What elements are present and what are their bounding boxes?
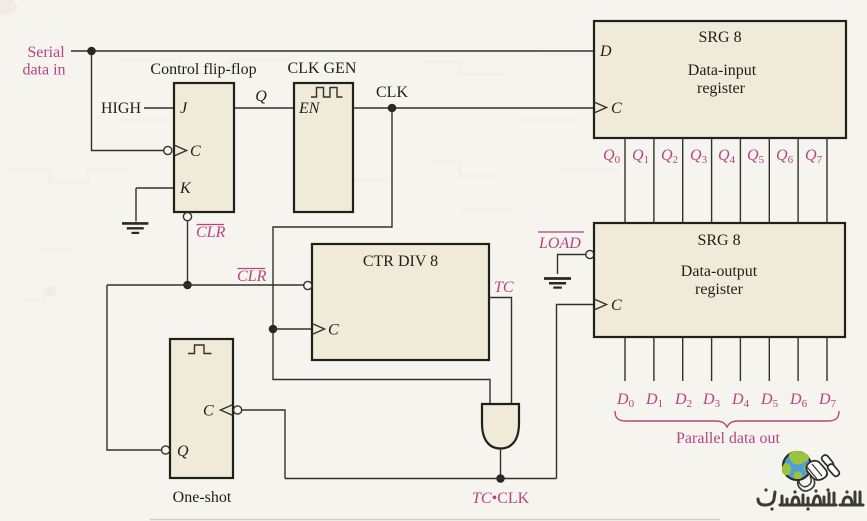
wire CLR to CTR — [107, 284, 304, 286]
svg-text:One-shot: One-shot — [173, 489, 232, 506]
wire CLK down to CTR and AND — [273, 108, 490, 405]
pin clock triangle FF — [174, 145, 187, 156]
svg-text:SRG 8: SRG 8 — [698, 29, 741, 46]
svg-text:Serial: Serial — [27, 44, 65, 61]
wire K to ground — [136, 188, 174, 222]
wire AND output — [500, 449, 502, 479]
svg-text:Data-input: Data-input — [688, 62, 757, 79]
pin clock triangle SRG2 — [594, 299, 607, 310]
faint bleed-through ghosts — [10, 55, 620, 300]
svg-text:EN: EN — [298, 100, 321, 117]
svg-text:CLK: CLK — [376, 84, 408, 101]
svg-text:C: C — [611, 297, 622, 314]
wire serial to FF clock — [92, 51, 164, 151]
oscillator CLK GEN — [294, 83, 353, 212]
node junction dot CLK — [388, 104, 397, 113]
clock waveform symbol — [311, 88, 343, 98]
logo cable — [798, 477, 815, 491]
svg-text:Data-output: Data-output — [681, 263, 758, 280]
pin bubble one-shot Q — [162, 446, 170, 454]
register U4 SRG 8 data-input — [594, 21, 846, 138]
wire D bus lines — [625, 337, 827, 381]
label CLR1 — [196, 224, 226, 241]
brace parallel data out — [615, 411, 839, 427]
one-shot U3 — [170, 339, 233, 478]
svg-text:SRG 8: SRG 8 — [697, 232, 740, 249]
logo arabic text — [758, 492, 863, 505]
wire one-shot C trigger — [242, 410, 285, 479]
svg-text:LOAD: LOAD — [538, 235, 581, 252]
svg-text:Control flip-flop: Control flip-flop — [150, 61, 256, 78]
svg-text:Q: Q — [255, 88, 267, 105]
svg-text:K: K — [179, 180, 192, 197]
wire Q bus lines — [625, 138, 827, 223]
svg-text:data in: data in — [22, 62, 65, 79]
labels Q0-Q7 — [603, 147, 823, 166]
node junction dot CLR — [183, 281, 192, 290]
svg-text:C: C — [328, 322, 339, 339]
label LOAD — [538, 232, 584, 252]
logo plug — [806, 455, 839, 480]
node junction dot CTR clock — [269, 325, 278, 334]
pulse symbol one-shot — [188, 345, 212, 354]
logo globe — [782, 451, 811, 480]
flip-flop U1 Control flip-flop — [174, 83, 234, 212]
faint pink smudges — [0, 0, 56, 296]
label CLR2 — [237, 268, 267, 285]
svg-text:register: register — [695, 281, 744, 298]
logo arabic dots — [764, 488, 848, 510]
wire CTR clock stub — [273, 328, 312, 330]
wire TC to AND input — [489, 298, 512, 405]
pin bubble one-shot C — [234, 406, 242, 414]
svg-text:TC: TC — [494, 279, 514, 296]
node junction dot serial — [87, 47, 96, 56]
svg-text:D: D — [599, 43, 612, 60]
svg-text:C: C — [203, 403, 214, 420]
gate AND — [482, 404, 519, 449]
svg-text:C: C — [611, 100, 622, 117]
svg-text:CLR: CLR — [196, 224, 226, 241]
wire FF Q to CLK GEN — [234, 107, 294, 109]
svg-text:HIGH: HIGH — [101, 100, 141, 117]
register U5 SRG 8 data-output — [594, 223, 845, 337]
ground under K — [122, 223, 148, 233]
svg-text:Q: Q — [177, 443, 189, 460]
wire CLK — [353, 107, 594, 109]
svg-text:Parallel data out: Parallel data out — [676, 430, 781, 447]
pin clock triangle SRG1 — [594, 102, 607, 113]
counter U2 CTR DIV 8 — [312, 244, 489, 360]
node junction dot TC.CLK — [496, 474, 505, 483]
svg-text:CLR: CLR — [237, 268, 267, 285]
svg-text:register: register — [697, 80, 746, 97]
node serial-data-in junction wire — [71, 50, 594, 52]
pin bubble FF CLR — [183, 213, 191, 221]
svg-text:CLK GEN: CLK GEN — [288, 60, 357, 77]
wire TC.CLK row — [285, 478, 557, 480]
svg-text:J: J — [180, 100, 188, 117]
wire HIGH to J — [144, 107, 174, 109]
wire CLR branch to one-shot Q — [107, 285, 161, 450]
wire LOAD — [558, 255, 586, 275]
svg-text:C: C — [190, 143, 201, 160]
svg-text:CTR DIV 8: CTR DIV 8 — [363, 253, 438, 270]
pin bubble FF clock — [164, 146, 172, 154]
ground under LOAD — [544, 279, 571, 288]
wire CLR vertical — [187, 221, 189, 285]
pin triangle one-shot C — [221, 405, 234, 416]
faint bottom scan streak — [150, 519, 720, 521]
labels D0-D7 — [616, 391, 837, 410]
wire to output register clock — [557, 305, 595, 479]
pin bubble CTR CLR — [304, 281, 312, 289]
svg-text:TC•CLK: TC•CLK — [472, 490, 530, 507]
pin bubble LOAD — [586, 250, 594, 258]
pin clock triangle CTR — [312, 324, 325, 335]
